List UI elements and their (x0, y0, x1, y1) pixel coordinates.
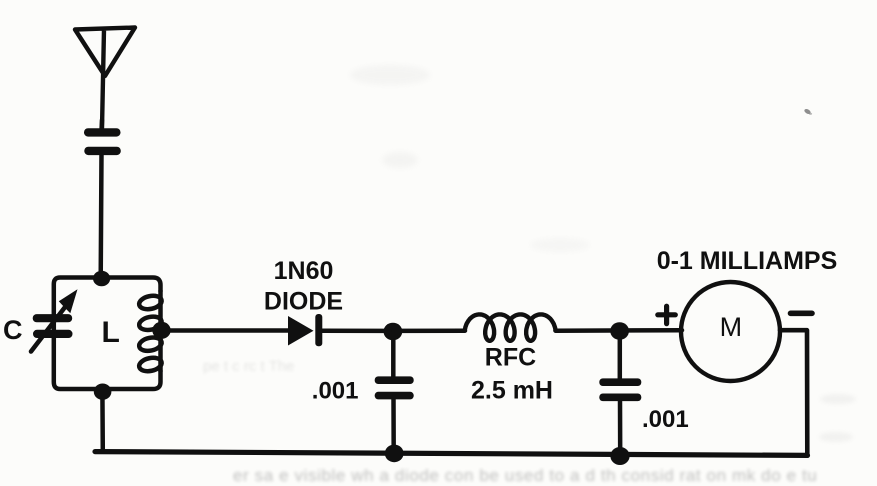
wire tank to diode (162, 328, 290, 333)
bottom rail wire (95, 452, 808, 456)
node B (610, 322, 629, 340)
wire C2 to tank top node (98, 153, 103, 279)
wire RFC to meter (556, 328, 683, 333)
node C4 ground (610, 447, 629, 465)
scan smudge top right (804, 108, 813, 115)
minus sign (791, 310, 813, 316)
node C3 ground (385, 445, 404, 463)
wire diode to node A (322, 328, 394, 333)
faint top smudges (350, 65, 430, 85)
svg-text:1N60: 1N60 (274, 257, 334, 285)
svg-text:RFC: RFC (485, 344, 536, 372)
svg-text:0-1 MILLIAMPS: 0-1 MILLIAMPS (657, 247, 838, 275)
capacitor C2 (antenna series cap) (84, 128, 121, 155)
inductor L spine (158, 291, 163, 371)
wire tank bottom to rail (100, 391, 105, 452)
node tank top (93, 271, 110, 287)
capacitor C3 stem top (391, 331, 396, 377)
ghost blobs right margin (820, 394, 856, 404)
svg-text:L: L (102, 316, 120, 349)
wire antenna to C2 (99, 120, 104, 131)
plus sign (658, 306, 676, 323)
svg-text:er sa e visible wh a diode co: er sa e visible wh a diode con be used t… (233, 466, 817, 485)
svg-text:.001: .001 (312, 378, 359, 405)
node tank right (152, 322, 170, 339)
inductor L coil loops (138, 294, 163, 311)
wire node A to RFC (394, 328, 465, 333)
inductor RFC (465, 314, 556, 340)
tank loop left+top+bottom (54, 278, 161, 390)
svg-text:pe t c rc t The: pe t c rc t The (203, 358, 294, 375)
node tank bottom (94, 384, 112, 400)
capacitor C4 stem bottom (618, 401, 623, 455)
svg-text:DIODE: DIODE (264, 287, 343, 315)
antenna (75, 28, 135, 129)
capacitor C3 plates (375, 376, 414, 399)
diode D1 1N60 (288, 316, 314, 346)
capacitor C3 stem bottom (391, 399, 396, 453)
capacitor C arrow (31, 305, 67, 352)
svg-text:.001: .001 (642, 406, 689, 433)
svg-text:C: C (3, 315, 23, 345)
node A (384, 323, 403, 341)
meter M body (681, 282, 780, 381)
svg-text:2.5 mH: 2.5 mH (471, 377, 553, 405)
wire meter right (780, 330, 807, 455)
capacitor C4 stem top (618, 331, 623, 379)
capacitor C4 plates (599, 378, 641, 401)
capacitor C plates (33, 314, 73, 338)
svg-text:M: M (720, 312, 743, 342)
